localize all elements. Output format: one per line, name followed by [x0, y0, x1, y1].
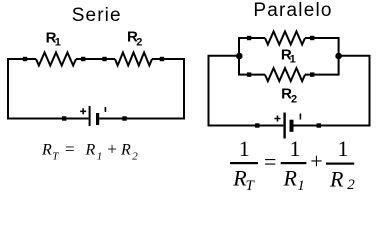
svg-text:Serie: Serie [72, 5, 122, 26]
node [81, 57, 85, 61]
svg-text:R: R [85, 142, 96, 159]
wire [294, 56, 370, 126]
svg-text:1: 1 [297, 178, 305, 193]
node [247, 36, 251, 40]
equation 1/RT = 1/R1 + 1/R2 [230, 136, 355, 194]
node [255, 123, 259, 127]
battery B2 [275, 113, 301, 139]
node [62, 116, 66, 120]
svg-text:1: 1 [55, 36, 61, 48]
resistor R2 [115, 53, 152, 66]
resistor R2 (parallel) [265, 68, 305, 81]
svg-text:1: 1 [290, 53, 296, 65]
svg-text:+: + [310, 149, 322, 174]
wire [209, 56, 284, 126]
svg-text:=: = [264, 149, 276, 174]
wire [99, 59, 184, 119]
svg-text:R: R [329, 166, 344, 191]
node [122, 116, 126, 120]
node [317, 123, 321, 127]
node [310, 36, 314, 40]
svg-text:R: R [283, 165, 298, 190]
svg-text:2: 2 [132, 151, 138, 163]
svg-text:1: 1 [97, 151, 103, 163]
svg-text:R: R [120, 142, 131, 159]
svg-text:+: + [107, 140, 117, 159]
junction node B [335, 53, 342, 60]
svg-text:R: R [41, 142, 52, 159]
wire [8, 59, 89, 119]
svg-text:T: T [52, 151, 59, 163]
resistor R1 [36, 53, 76, 66]
svg-text:1: 1 [338, 136, 349, 161]
resistor R1 (parallel) [265, 32, 305, 45]
node [23, 57, 27, 61]
svg-text:1: 1 [239, 136, 250, 161]
wire [76, 58, 115, 60]
node [247, 72, 251, 76]
junction node A [236, 53, 243, 60]
node [102, 57, 106, 61]
svg-text:2: 2 [136, 37, 142, 49]
svg-text:2: 2 [347, 177, 355, 193]
svg-text:1: 1 [290, 136, 301, 161]
wire [239, 38, 339, 56]
wire [239, 56, 339, 75]
svg-text:=: = [65, 140, 75, 159]
node [160, 57, 164, 61]
equation RT = R1 + R2 [41, 140, 138, 163]
svg-text:2: 2 [291, 93, 297, 105]
battery B1 [80, 106, 105, 126]
svg-text:Paralelo: Paralelo [253, 0, 332, 21]
node [310, 72, 314, 76]
